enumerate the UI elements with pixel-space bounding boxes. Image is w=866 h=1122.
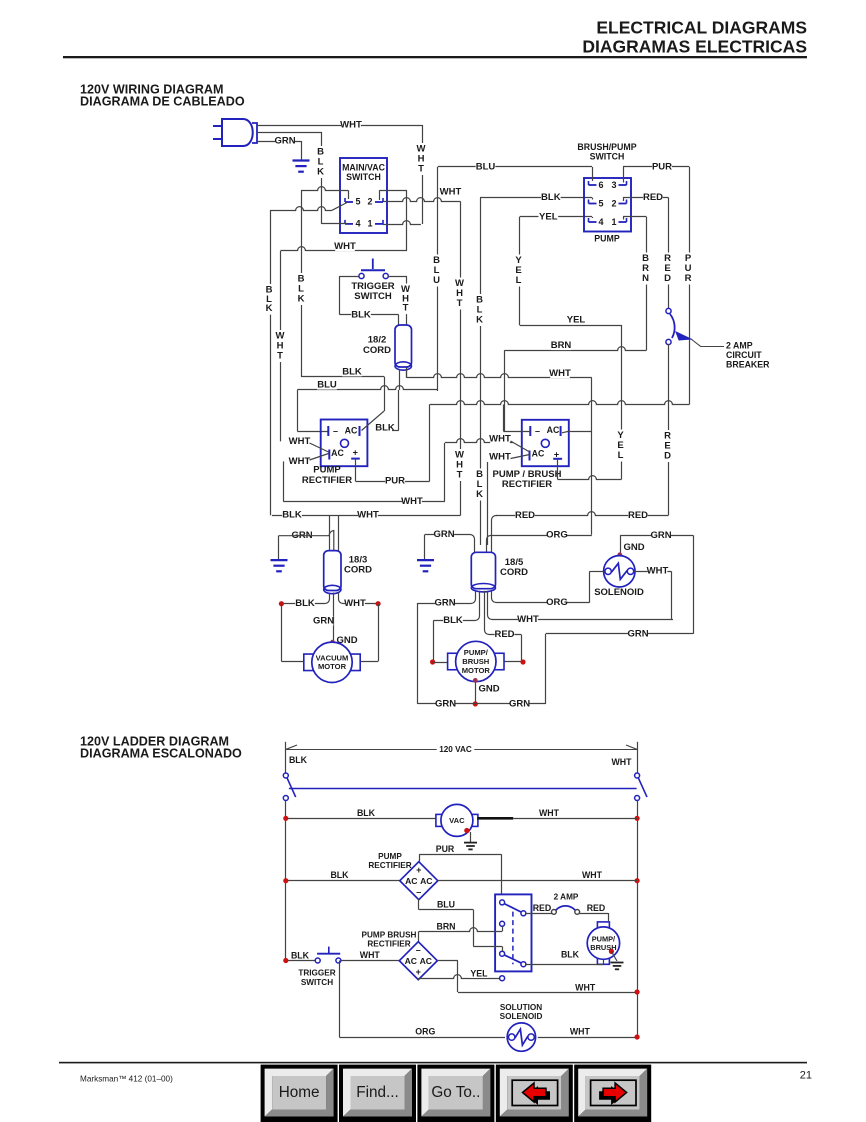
svg-text:WHT: WHT [570,1027,591,1037]
svg-text:PUMP: PUMP [378,852,402,861]
svg-text:T: T [457,298,463,309]
svg-text:6: 6 [598,180,603,190]
svg-text:U: U [433,275,440,286]
svg-text:GRN: GRN [650,530,671,541]
wire trig BLK drop [398,315,400,326]
dot rB R [635,1034,640,1039]
svg-text:DIAGRAMA ESCALONADO: DIAGRAMA ESCALONADO [80,747,242,761]
wire BRN ladder [419,922,503,944]
breaker 2A [552,892,580,914]
wire GRN left drop [278,536,280,560]
button ArrowLeft [496,1065,573,1122]
svg-text:WHT: WHT [647,566,669,577]
svg-text:GRN: GRN [313,616,334,627]
wire WHT diag BR2 2 [488,452,530,546]
pump/brush rectifier BR2 [522,420,569,466]
pb motor gnd dot [473,678,478,683]
wire pin4 entry [592,217,594,218]
svg-text:WHT: WHT [517,614,539,625]
svg-text:WHT: WHT [440,187,462,198]
wire YEL pin4row [520,211,592,222]
svg-text:PUR: PUR [436,844,455,854]
svg-text:AC: AC [405,956,417,966]
dot r1 R [635,816,640,821]
18/3 grn below [333,593,335,643]
ground G1 [293,161,310,172]
button Find [339,1065,416,1122]
svg-text:VACUUM: VACUUM [316,653,349,662]
page title line 1 [596,18,807,38]
wire BLK down x321 [316,132,325,224]
pump/brush rectifier label [493,469,562,490]
svg-text:GRN: GRN [433,529,454,540]
svg-text:Marksman™ 412 (01–00): Marksman™ 412 (01–00) [80,1075,173,1084]
rung1 WHT thick [477,817,513,820]
svg-text:2 AMP: 2 AMP [726,341,753,351]
svg-text:CORD: CORD [363,345,391,356]
MAIN/VAC switch box [340,158,387,233]
wire PUR ladder [419,844,501,862]
rung bottom right [538,1027,637,1038]
svg-text:BRUSH/PUMP: BRUSH/PUMP [577,142,636,152]
pump brush rect label2 [362,931,417,949]
svg-text:TRIGGER: TRIGGER [298,969,335,978]
wire ORG lower [492,591,590,608]
wire WHT pb [488,591,674,625]
wire GRN right drop [424,535,426,560]
wire solenoid left [590,571,605,573]
label GRN vac [313,616,334,627]
svg-text:WHT: WHT [289,436,311,447]
wire pin6 entry [592,167,594,181]
svg-text:BLK: BLK [357,808,376,818]
svg-text:–: – [416,887,421,897]
18/2 cord wires [400,369,407,390]
svg-text:BREAKER: BREAKER [726,360,770,370]
svg-text:GRN: GRN [627,628,648,639]
pin 4 [345,218,361,228]
svg-text:–: – [333,426,338,436]
svg-text:GND: GND [478,683,499,694]
dot r2b R [0,0,1,1]
svg-text:RED: RED [515,510,535,521]
svg-text:SWITCH: SWITCH [354,291,392,302]
header rule [63,56,807,58]
pin 3 [611,180,626,190]
wire RED pb drop [504,635,522,662]
svg-text:WHT: WHT [340,120,362,131]
wire YEL vert x519 [514,217,523,325]
VAC motor [436,804,478,836]
wire GRN right vert [693,535,695,634]
wire pb left link [433,662,450,664]
junction dot vac right [376,601,381,606]
svg-text:MOTOR: MOTOR [318,662,347,671]
svg-text:–: – [416,945,421,955]
wire YEL vert x621 [616,325,625,480]
pin 2 [367,197,383,207]
svg-text:T: T [457,470,463,481]
wire RED bundle [492,510,669,553]
svg-text:K: K [476,489,483,500]
wire RED vert lower [663,344,672,515]
svg-text:WHT: WHT [489,452,511,463]
svg-text:PUMP: PUMP [594,234,620,244]
solenoid gnd dot [617,552,622,557]
svg-text:GND: GND [623,542,644,553]
svg-text:WHT: WHT [575,983,596,993]
ladder switch left [283,773,295,801]
svg-text:BLK: BLK [375,423,395,434]
junction dot vac left [279,601,284,606]
svg-text:AC: AC [420,876,432,886]
svg-text:WHT: WHT [611,757,632,767]
svg-text:K: K [266,303,273,314]
wire BLK vert x301 [297,190,306,376]
pump rectifier label [302,465,352,487]
svg-text:SWITCH: SWITCH [301,978,333,987]
pin 5 [345,197,361,207]
svg-text:RECTIFIER: RECTIFIER [502,479,552,490]
svg-text:BLK: BLK [330,870,349,880]
svg-text:ORG: ORG [546,530,568,541]
wire 18-3 bundle top [330,515,339,550]
junction dot pb left [430,659,435,664]
ladder 120VAC arrow [286,745,637,754]
BRUSH/PUMP switch box [584,178,631,232]
svg-text:GRN: GRN [435,698,456,709]
box contact TL [500,900,526,916]
svg-text:RED: RED [533,903,552,913]
svg-text:WHT: WHT [360,950,381,960]
wire BLU rect drop [297,390,328,432]
svg-text:BRN: BRN [436,922,455,932]
svg-text:BLK: BLK [541,192,561,203]
rung bottom [339,1027,505,1038]
lever pin5 [332,203,347,211]
wire pin4 BLK [322,223,348,225]
label PUMP [594,234,620,244]
svg-text:Go To..: Go To.. [431,1084,480,1101]
svg-text:18/2: 18/2 [368,335,387,346]
svg-text:SWITCH: SWITCH [346,172,381,182]
svg-text:L: L [516,275,522,286]
wire BLK diag BR1 [362,390,399,434]
svg-text:2 AMP: 2 AMP [554,892,579,901]
wire x406 vert [406,190,408,251]
button ArrowRight [574,1065,651,1122]
svg-text:WHT: WHT [489,434,511,445]
wire trig BLK [340,309,399,320]
label GND sol [623,542,644,553]
svg-text:K: K [476,315,483,326]
svg-text:WHT: WHT [289,456,311,467]
svg-text:RED: RED [494,629,514,640]
wire vac left drop [281,604,306,662]
wire PUR left vert [429,405,431,482]
ladder left rail [285,801,287,961]
svg-text:–: – [535,426,540,436]
wire BLU ladder [419,899,503,951]
wire trig left [340,276,359,315]
vac ground [464,843,477,850]
wire RED pb [485,591,522,641]
ladder left rail top [285,742,287,773]
wire YEL ladder [418,978,420,980]
BRUSH/PUMP switch title [577,142,636,162]
wire GRN left vert [417,603,419,704]
wire ORG upper [487,530,592,553]
svg-text:K: K [298,294,305,305]
wire YEL mid [520,315,622,326]
svg-text:GRN: GRN [274,136,295,147]
svg-text:BLK: BLK [351,309,371,320]
wire GRN 18-5 low [418,591,476,609]
pin 5b [589,199,604,209]
svg-text:WHT: WHT [357,510,379,521]
svg-text:DIAGRAMA DE CABLEADO: DIAGRAMA DE CABLEADO [80,95,245,109]
trigger switch S3 [359,259,388,279]
wire BR2 ac right [562,431,592,433]
page number [800,1070,812,1082]
vac motor gnd dot [330,640,335,645]
wire WHT to BR2 [445,439,513,443]
ladder switch box [495,894,531,971]
ladder right rail [637,801,639,1038]
wire pb gnd drop [475,682,477,704]
solution solenoid label [500,1003,543,1021]
svg-text:GRN: GRN [509,698,530,709]
pin 1b [611,217,626,227]
SOLUTION SOLENOID L2 [507,1023,535,1051]
wire BLK upper loop [301,187,348,191]
svg-text:5: 5 [355,197,360,207]
svg-text:BLK: BLK [282,510,302,521]
svg-text:CIRCUIT: CIRCUIT [726,350,762,360]
label SOLENOID [594,587,644,598]
svg-text:PUMP/: PUMP/ [464,648,489,657]
button GoTo [417,1065,494,1122]
wire WHT left vert x280 [276,251,285,442]
svg-text:Home: Home [279,1084,320,1101]
wire BLK left vert x270 [265,210,274,515]
svg-text:3: 3 [611,180,616,190]
svg-text:PUR: PUR [385,476,405,487]
pb ladder gnd dot [609,949,614,954]
SOLENOID L1 [604,556,635,587]
svg-text:CORD: CORD [344,565,372,576]
section title ladder [80,735,242,761]
svg-text:2: 2 [611,199,616,209]
svg-text:WHT: WHT [582,870,603,880]
svg-text:MAIN/VAC: MAIN/VAC [342,163,385,173]
PUMP/BRUSH MOTOR M2 [448,641,504,681]
svg-text:WHT: WHT [549,368,571,379]
wire YEL ladder2 [418,969,504,981]
wire BLK mid drop [384,377,386,411]
wire GRN top right [620,530,693,541]
footer text [80,1075,173,1084]
breaker label [726,341,770,370]
svg-text:YEL: YEL [470,969,488,979]
vac gnd stem [470,832,472,843]
wire PUR run [430,401,690,405]
AC plug [213,119,257,146]
dot rW R [635,989,640,994]
svg-text:2: 2 [367,197,372,207]
wire BRN mid [505,340,647,351]
wire BLK motor left [281,593,329,610]
wire BLK plug mid [257,132,322,134]
trigger ladder label [298,969,335,987]
wire GRN drop [301,141,303,160]
button Home [261,1065,338,1122]
wire pin1 BRN [623,217,647,220]
svg-text:AC: AC [331,448,344,458]
svg-text:BLK: BLK [561,950,580,960]
svg-text:AC: AC [405,876,417,886]
dot r3 L [283,958,288,963]
junction dot pb right [520,659,525,664]
svg-text:RECTIFIER: RECTIFIER [302,475,352,486]
svg-text:BLK: BLK [291,950,310,960]
svg-text:ELECTRICAL DIAGRAMS: ELECTRICAL DIAGRAMS [596,18,807,38]
rung3 BLK [286,950,315,960]
wire BRN drop [504,350,506,431]
pb ladder ground [611,963,624,970]
svg-text:ORG: ORG [546,597,568,608]
svg-text:T: T [403,303,409,314]
footer rule [59,1062,807,1064]
svg-text:WHT: WHT [334,241,356,252]
svg-text:AC: AC [345,426,358,436]
svg-text:+: + [353,447,358,457]
svg-text:5: 5 [598,199,603,209]
svg-text:SWITCH: SWITCH [590,152,625,162]
wire PUR vert [684,167,693,405]
svg-text:1: 1 [611,217,616,227]
svg-text:BRUSH: BRUSH [462,657,489,666]
wire PUR drop [501,854,503,894]
svg-text:RED: RED [643,192,663,203]
wire AC right to WHT rung [437,961,458,993]
wire GRN left [279,530,334,550]
wire WHT BR1 in1 [289,436,329,452]
pump rectifier BR1 [321,420,368,467]
svg-text:SOLUTION: SOLUTION [500,1003,542,1012]
svg-text:RED: RED [628,510,648,521]
wire BLK mid [301,366,384,377]
svg-text:AC: AC [547,425,560,435]
wire BLK 18-3 top [272,510,461,521]
svg-text:D: D [664,451,671,462]
wire WHT motor right [339,593,379,610]
wire BLK ladder [526,950,604,965]
18/3 cord [324,551,372,594]
wire BLK pb [433,591,479,626]
label GND vac [336,635,357,646]
wire pin2 right WHT [383,187,462,202]
rung2 right [438,870,637,881]
svg-text:T: T [418,164,424,175]
wire WHT vert x460 [455,202,464,516]
svg-text:120 VAC: 120 VAC [439,745,472,754]
svg-text:RECTIFIER: RECTIFIER [367,940,410,949]
wire PUR from plus [356,459,430,487]
wire RED vert upper [663,198,672,309]
18/5 cord [471,552,528,592]
dot r2 R [635,878,640,883]
svg-text:1: 1 [367,218,372,228]
svg-text:WHT: WHT [539,808,560,818]
trigger ladder [315,947,341,963]
ladder right rail top [637,742,639,773]
box contact ML [500,921,505,931]
wire GRN right riser [545,634,547,704]
wire BLK lever line [270,207,332,211]
vac gnd dot [464,828,469,833]
svg-text:4: 4 [598,217,603,227]
svg-text:BLU: BLU [317,380,337,391]
svg-text:DIAGRAMAS ELECTRICAS: DIAGRAMAS ELECTRICAS [582,37,807,57]
pin 1 [367,218,383,228]
wire WHT BR1 in2 [284,454,329,502]
wire WHT cross link [283,443,445,507]
wire trig right WHT [388,276,410,378]
svg-text:GRN: GRN [434,598,455,609]
wire pin5 entry [592,198,594,200]
breaker callout [691,339,724,347]
wire BLK pin5row [480,192,592,203]
wire BR2 minus in [503,405,530,432]
svg-text:SOLENOID: SOLENOID [500,1012,543,1021]
label GND pb [478,683,499,694]
wire WHT diag BR2 1 [489,434,530,452]
ground G2 [271,560,288,571]
section title wiring [80,83,245,109]
wire solenoid gnd [620,535,622,555]
wire WHT plug top [257,120,422,131]
svg-text:K: K [317,167,324,178]
wire pin5 drop [348,190,350,199]
svg-text:VAC: VAC [449,816,465,825]
label WHT rail [611,757,632,767]
svg-text:BLK: BLK [443,615,463,626]
svg-text:N: N [642,273,649,284]
18/2 cord [363,325,411,370]
svg-text:BLU: BLU [437,900,455,910]
svg-text:WHT: WHT [344,598,366,609]
svg-text:R: R [685,273,692,284]
label BLK rail [289,755,308,765]
svg-text:MOTOR: MOTOR [462,666,491,675]
svg-text:SOLENOID: SOLENOID [594,587,644,598]
svg-text:RECTIFIER: RECTIFIER [368,861,411,870]
trigger switch label [351,281,394,302]
svg-text:RED: RED [587,903,606,913]
wire RED ladder 2 [580,903,609,921]
wire RED ladder 1 [526,903,552,914]
wire ORG lower up [589,571,591,602]
wire solenoid WHT drop [671,571,673,619]
svg-text:+: + [416,865,421,875]
wire x592 vert [591,378,593,535]
svg-text:21: 21 [800,1070,812,1082]
svg-text:YEL: YEL [567,315,586,326]
pump rectifier label2 [368,852,411,870]
svg-text:BLK: BLK [342,366,362,377]
svg-text:WHT: WHT [401,496,423,507]
